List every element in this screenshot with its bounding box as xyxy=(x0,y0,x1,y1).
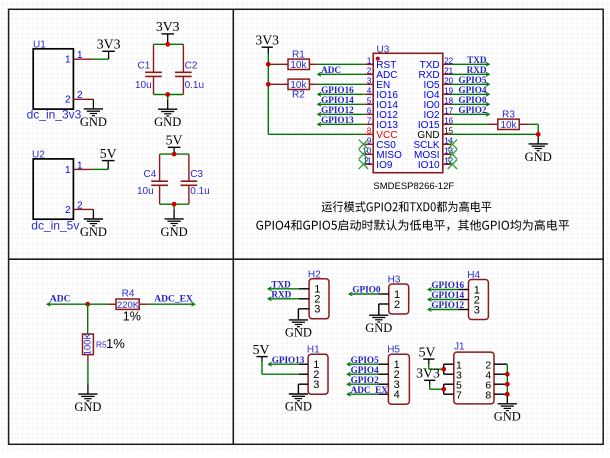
U3 pin 11 (IO9) xyxy=(363,156,393,171)
annotation text line 1 xyxy=(322,201,492,212)
net label GPIO14 xyxy=(318,95,365,106)
svg-text:TXD: TXD xyxy=(271,280,291,290)
J1 left tie 5-7 xyxy=(443,384,445,394)
U1 pin 1 xyxy=(73,58,93,60)
svg-text:GPIO14: GPIO14 xyxy=(321,95,354,105)
net label GPIO0 xyxy=(451,95,489,106)
wire U1 pin1 to 3V3 xyxy=(93,58,109,60)
net label RXD xyxy=(451,65,489,76)
junction bottom C1C2 xyxy=(165,92,170,97)
capacitor C3 xyxy=(181,154,210,204)
ground at U2 pin2 xyxy=(80,209,107,239)
svg-text:10k: 10k xyxy=(290,60,307,71)
svg-text:6: 6 xyxy=(367,106,372,115)
ground at H2 pin3 xyxy=(285,320,312,340)
annotation text line 2 xyxy=(256,220,569,231)
wire stub to ground C4C3 xyxy=(173,204,175,209)
junction R2 xyxy=(266,82,271,87)
resistor R4 220K 1% xyxy=(108,289,148,324)
resistor R1 10k xyxy=(268,49,317,71)
svg-text:GPIO16: GPIO16 xyxy=(321,85,354,95)
wire C1 C2 bottom rail xyxy=(154,94,184,96)
power flag 5V over C4 C3 xyxy=(173,147,175,154)
net label TXD xyxy=(451,55,489,66)
svg-text:1%: 1% xyxy=(106,336,125,351)
junction top C1C2 xyxy=(165,42,170,47)
svg-text:8: 8 xyxy=(367,126,372,135)
header H5 body xyxy=(387,345,409,405)
wire C4 C3 bottom rail xyxy=(160,203,189,205)
U3 pin 4 (IO16) xyxy=(365,86,399,101)
U3 pin 18 (IO0) xyxy=(423,96,453,111)
net label GPIO0 xyxy=(349,285,381,296)
svg-text:GPIO12: GPIO12 xyxy=(431,300,464,310)
power flag 3V3 (caps) xyxy=(156,19,180,34)
svg-text:GPIO12: GPIO12 xyxy=(321,105,354,115)
net label GPIO16 xyxy=(428,280,464,291)
U3 pin 1 (RST) xyxy=(365,56,397,71)
svg-text:C2: C2 xyxy=(185,60,198,71)
junction R1 xyxy=(266,62,271,67)
ground under C1 C2 xyxy=(154,100,181,130)
U3 pin 3 (EN) xyxy=(365,76,390,91)
wire junction to R4 xyxy=(88,303,116,305)
no-connect X pin 14 xyxy=(448,140,457,149)
junction J1 pin6 xyxy=(505,382,510,387)
net label GPIO2 xyxy=(451,105,489,116)
svg-text:RXD: RXD xyxy=(271,290,291,300)
svg-text:3V3: 3V3 xyxy=(416,366,440,381)
svg-text:3V3: 3V3 xyxy=(156,19,180,34)
svg-text:RXD: RXD xyxy=(467,65,487,75)
svg-text:GND: GND xyxy=(525,150,552,164)
header H3 body xyxy=(388,275,409,315)
H2 pin 1 stub xyxy=(299,288,309,290)
svg-text:R1: R1 xyxy=(292,49,305,60)
net label GPIO4 xyxy=(451,85,489,96)
U3 pin 2 (ADC) xyxy=(365,66,398,81)
svg-text:3: 3 xyxy=(313,379,319,391)
no-connect X pin 10 xyxy=(359,150,368,159)
H5 pin 4 stub xyxy=(378,393,388,395)
svg-text:R3: R3 xyxy=(502,109,515,120)
wire 3V3 vertical rail xyxy=(267,47,269,54)
H5 pin 3 stub xyxy=(378,383,388,385)
junction 3V3 J1 xyxy=(441,387,446,392)
U3 pin 21 (RXD) xyxy=(418,66,453,81)
svg-text:5V: 5V xyxy=(253,342,270,357)
resistor R3 10k xyxy=(451,109,528,131)
svg-text:dc_in_3v3: dc_in_3v3 xyxy=(27,108,82,122)
ground at J1 xyxy=(494,394,521,424)
svg-text:GPIO13: GPIO13 xyxy=(321,115,354,125)
U3 pin 17 (IO2) xyxy=(423,106,453,121)
U2 pin 2 xyxy=(73,208,93,210)
no-connect X pin 11 xyxy=(359,160,368,169)
power 3V3 at J1 xyxy=(416,366,440,385)
wire VCC pin8 xyxy=(268,133,365,135)
svg-text:1%: 1% xyxy=(123,310,141,324)
power flag 3V3 (U1) xyxy=(97,37,121,52)
U3 pin 22 (TXD) xyxy=(420,56,454,71)
net label ADC_EX xyxy=(149,294,195,306)
wire 3V3 to J1 xyxy=(429,385,431,389)
wire R3 to GND rail xyxy=(528,124,538,134)
H4 pin 3 stub xyxy=(458,309,468,311)
svg-text:GPIO2: GPIO2 xyxy=(351,375,379,385)
H1 pin 1 stub xyxy=(299,363,308,365)
wire junction down to R5 xyxy=(87,304,89,334)
power 5V at U2 xyxy=(107,161,109,170)
H3 pin 1 stub xyxy=(379,293,389,295)
net label GPIO12 xyxy=(318,105,365,116)
net label GPIO16 xyxy=(318,85,365,96)
ground at H3 pin2 xyxy=(365,315,392,335)
wire C1 C2 top rail xyxy=(154,43,184,45)
svg-text:GND: GND xyxy=(285,326,312,340)
svg-text:7: 7 xyxy=(367,116,372,125)
svg-text:IO9: IO9 xyxy=(376,160,393,171)
capacitor C4 xyxy=(137,154,168,204)
svg-text:GND: GND xyxy=(74,400,101,414)
junction ADC divider xyxy=(85,302,90,307)
U3 pin 12 (IO10) xyxy=(418,156,454,171)
net label GPIO5 xyxy=(451,75,489,86)
svg-text:0.1u: 0.1u xyxy=(185,80,204,91)
svg-text:5: 5 xyxy=(367,96,372,105)
U3 pin 5 (IO14) xyxy=(365,96,399,111)
svg-text:C3: C3 xyxy=(190,169,203,180)
J1 pin 8 xyxy=(485,389,507,401)
power flag 5V (U2) xyxy=(100,146,117,161)
svg-text:2: 2 xyxy=(367,66,372,75)
U3 pin 15 (GND) xyxy=(417,126,453,141)
U3 pin 13 (MOSI) xyxy=(414,146,454,161)
svg-text:GPIO0: GPIO0 xyxy=(458,95,486,105)
svg-text:5V: 5V xyxy=(166,133,183,148)
J1 pin 1 xyxy=(444,359,462,371)
wire 5V to H1 pin2 xyxy=(261,362,263,374)
U3 pin 6 (IO12) xyxy=(365,106,399,121)
svg-text:ADC_EX: ADC_EX xyxy=(154,294,193,304)
svg-text:ADC: ADC xyxy=(321,65,341,75)
ground at U3 pin15 xyxy=(525,134,552,164)
net label RXD xyxy=(268,290,299,301)
power flag 5V (caps) xyxy=(166,133,183,148)
U3 pin 20 (IO5) xyxy=(423,76,453,91)
wire 5V to J1 xyxy=(428,364,430,369)
power flag 3V3 (U3) xyxy=(255,33,279,48)
svg-text:100K: 100K xyxy=(83,333,94,356)
capacitor C1 xyxy=(135,44,162,94)
wire C4 C3 top rail xyxy=(160,153,189,155)
svg-text:3: 3 xyxy=(314,304,320,316)
U1 pin 2 xyxy=(73,98,93,100)
svg-text:GPIO0: GPIO0 xyxy=(352,285,380,295)
junction J1 pin4 xyxy=(505,372,510,377)
connector U2 dc_in_5v xyxy=(31,149,83,232)
junction GND R3 xyxy=(536,132,541,137)
svg-text:1: 1 xyxy=(65,165,71,176)
svg-text:1: 1 xyxy=(367,56,372,65)
net label ADC xyxy=(47,294,88,306)
svg-text:10k: 10k xyxy=(290,80,307,91)
capacitor C2 xyxy=(175,44,204,94)
svg-text:0.1u: 0.1u xyxy=(190,186,209,197)
quadrant divider horizontal xyxy=(9,258,604,260)
svg-text:GPIO14: GPIO14 xyxy=(431,290,464,300)
svg-text:2: 2 xyxy=(65,94,71,105)
power 3V3 at U1 xyxy=(108,51,110,59)
U3 pin 19 (IO4) xyxy=(423,86,453,101)
svg-text:ADC: ADC xyxy=(50,294,71,304)
svg-text:7: 7 xyxy=(456,389,462,401)
H2 pin 3 stub xyxy=(298,309,309,320)
net label TXD xyxy=(268,280,299,291)
H1 pin 2 stub xyxy=(299,373,308,375)
header H2 body xyxy=(308,269,329,319)
net label GPIO2 xyxy=(347,375,379,386)
svg-text:10u: 10u xyxy=(137,186,154,197)
svg-text:2: 2 xyxy=(65,205,71,216)
junction bottom C4C3 xyxy=(172,202,177,207)
power 5V at J1 xyxy=(419,345,436,365)
svg-text:GPIO16: GPIO16 xyxy=(431,280,464,290)
net label GPIO13 xyxy=(268,355,304,366)
J1 pin 5 xyxy=(444,379,462,391)
H2 pin 2 stub xyxy=(299,298,309,300)
U2 pin 1 xyxy=(73,168,93,170)
svg-text:3: 3 xyxy=(474,304,480,316)
svg-text:3: 3 xyxy=(367,76,372,85)
wire R1 to pin1 xyxy=(318,63,365,65)
J1 left tie 1-3 xyxy=(443,364,445,374)
J1 pin 3 xyxy=(444,369,462,381)
svg-text:GPIO2: GPIO2 xyxy=(458,105,486,115)
header H1 body xyxy=(307,345,328,395)
ground at U1 pin2 xyxy=(80,99,107,129)
J1 pin 7 xyxy=(444,389,462,401)
svg-text:C4: C4 xyxy=(144,169,157,180)
H3 pin 2 stub xyxy=(379,304,389,315)
H1 pin 3 stub xyxy=(298,384,308,394)
svg-text:4: 4 xyxy=(367,86,372,95)
svg-text:1: 1 xyxy=(65,54,71,65)
J1 pin 2 xyxy=(485,359,507,371)
svg-text:5V: 5V xyxy=(100,146,117,161)
svg-text:GND: GND xyxy=(494,410,521,424)
wire R2 to pin3 EN xyxy=(318,83,365,85)
resistor R2 10k xyxy=(268,79,317,100)
wire stub to ground C1C2 xyxy=(167,95,169,100)
junction top C4C3 xyxy=(172,152,177,157)
junction J1 pin8 xyxy=(505,392,510,397)
svg-text:3V3: 3V3 xyxy=(255,33,279,48)
svg-text:GND: GND xyxy=(80,225,107,239)
svg-text:5V: 5V xyxy=(419,345,436,360)
H5 pin 2 stub xyxy=(378,373,388,375)
svg-text:R4: R4 xyxy=(122,289,135,300)
svg-text:GND: GND xyxy=(161,225,188,239)
H4 pin 2 stub xyxy=(458,299,468,301)
U3 pin 14 (SCLK) xyxy=(413,136,453,151)
svg-text:GPIO13: GPIO13 xyxy=(272,355,305,365)
ground at H1 pin3 xyxy=(285,394,312,414)
H4 pin 1 stub xyxy=(458,289,468,291)
net label GPIO5 xyxy=(347,355,379,366)
svg-text:4: 4 xyxy=(394,389,400,401)
no-connect X pin 12 xyxy=(448,160,457,169)
net label ADC_EX xyxy=(347,385,388,396)
svg-text:GND: GND xyxy=(285,400,312,414)
U3 pin 10 (MISO) xyxy=(362,146,402,161)
wire pin15 GND xyxy=(451,133,538,135)
svg-text:GPIO4: GPIO4 xyxy=(458,85,486,95)
header H4 body xyxy=(467,270,488,320)
svg-text:GND: GND xyxy=(80,115,107,129)
net label GPIO4 xyxy=(347,365,379,376)
svg-text:TXD: TXD xyxy=(467,55,487,65)
svg-text:10u: 10u xyxy=(135,80,152,91)
connector J1 body xyxy=(454,342,494,404)
svg-text:GND: GND xyxy=(365,321,392,335)
no-connect X pin 9 xyxy=(359,140,368,149)
U3 pin 8 (VCC) xyxy=(365,126,398,141)
quadrant divider vertical xyxy=(232,9,234,444)
svg-text:8: 8 xyxy=(485,389,491,401)
net label GPIO13 xyxy=(318,115,365,126)
svg-text:GND: GND xyxy=(154,115,181,129)
ground under C4 C3 xyxy=(161,209,188,239)
H5 pin 1 stub xyxy=(378,363,388,365)
svg-text:IO10: IO10 xyxy=(418,160,440,171)
svg-text:J1: J1 xyxy=(454,342,465,353)
svg-text:GPIO5: GPIO5 xyxy=(458,75,486,85)
wire U2 pin1 to 5V xyxy=(93,168,108,170)
power 5V at H1 xyxy=(253,342,270,362)
svg-text:SMDESP8266-12F: SMDESP8266-12F xyxy=(373,181,454,192)
svg-text:dc_in_5v: dc_in_5v xyxy=(31,219,79,233)
connector U1 dc_in_3v3 xyxy=(27,39,83,121)
wire R5 to ground xyxy=(87,363,89,385)
ground under R5 xyxy=(74,385,101,415)
J1 pin 4 xyxy=(485,369,507,381)
U3 pin 9 (CS0) xyxy=(365,136,396,151)
net label ADC xyxy=(318,65,365,76)
junction 5V J1 xyxy=(441,367,446,372)
U3 pin 16 (IO15) xyxy=(418,116,454,131)
svg-text:2: 2 xyxy=(394,299,400,311)
svg-text:C1: C1 xyxy=(138,60,151,71)
IC U3 SMDESP8266-12F body xyxy=(373,44,454,192)
svg-text:GPIO4: GPIO4 xyxy=(351,365,379,375)
power flag 3V3 over C1 C2 xyxy=(167,34,169,44)
wire J1 right rail to ground xyxy=(506,364,508,394)
svg-text:ADC_EX: ADC_EX xyxy=(351,385,389,395)
no-connect X pin 13 xyxy=(448,150,457,159)
resistor R5 100K 1% xyxy=(83,333,126,363)
svg-text:3V3: 3V3 xyxy=(97,37,121,52)
J1 pin 6 xyxy=(485,379,507,391)
net label GPIO12 xyxy=(428,300,464,311)
svg-text:GPIO5: GPIO5 xyxy=(351,355,379,365)
U3 pin 7 (IO13) xyxy=(365,116,399,131)
svg-text:10k: 10k xyxy=(500,120,517,131)
net label GPIO14 xyxy=(428,290,464,301)
